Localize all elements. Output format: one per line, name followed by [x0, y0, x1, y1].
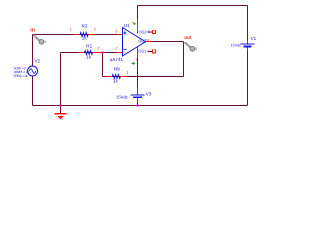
- op-amp minus input glyph: [123, 48, 126, 50]
- op-amp plus input pin stub: [118, 34, 123, 36]
- resistor Rb zigzag: [112, 74, 120, 78]
- wire out row: [145, 41, 184, 43]
- svg-text:1k: 1k: [82, 36, 88, 41]
- V3 battery plates: [131, 94, 145, 96]
- svg-text:R1: R1: [86, 43, 92, 48]
- wire V3 bottom stub: [137, 98, 139, 106]
- voltage probe at in: [34, 35, 47, 45]
- svg-text:in: in: [30, 27, 35, 33]
- ground symbol triangle: [57, 116, 63, 119]
- wire minus input row: [61, 52, 123, 54]
- svg-text:V2: V2: [34, 58, 40, 63]
- resistor R1 zigzag: [84, 50, 92, 54]
- junction node at V3 rail: [136, 104, 138, 106]
- wire in vertical to V2: [32, 35, 34, 67]
- op-amp V+ pin stub: [137, 19, 139, 34]
- svg-text:out: out: [184, 35, 192, 41]
- resistor Rb pin stubs: [106, 76, 112, 78]
- wire V- vertical: [137, 46, 139, 95]
- svg-text:V3: V3: [146, 92, 152, 97]
- V2 sine squiggle: [29, 69, 36, 73]
- svg-text:V1: V1: [251, 36, 257, 41]
- resistor R1 pin stubs: [79, 52, 85, 54]
- svg-text:2: 2: [97, 47, 99, 51]
- op-amp OS1 unconnected pin square: [152, 50, 155, 53]
- op-amp OS1 pin stub: [148, 51, 153, 53]
- svg-text:3: 3: [115, 30, 117, 34]
- voltage probe at out: [185, 42, 198, 52]
- wire ground stub below rail: [60, 106, 62, 114]
- pin-7 current marker arrow: [132, 22, 136, 25]
- svg-text:U1: U1: [124, 23, 130, 28]
- V2 sine source circle: [28, 66, 38, 76]
- wire V1 bottom vertical: [247, 48, 249, 106]
- svg-text:R2: R2: [82, 23, 88, 28]
- junction node at R1/feedback: [101, 51, 103, 53]
- svg-text:1: 1: [70, 28, 72, 32]
- svg-text:1: 1: [147, 49, 149, 53]
- op-amp U1 triangle: [123, 28, 146, 57]
- wire ground vertical: [60, 53, 62, 106]
- wire feedback vertical: [102, 53, 104, 77]
- pin-4 current marker arrow: [131, 62, 135, 65]
- svg-text:OS1: OS1: [138, 48, 147, 53]
- wire bottom rail: [33, 105, 248, 107]
- svg-text:OS2: OS2: [139, 29, 148, 34]
- junction node at ground rail: [59, 104, 61, 106]
- wire V+ vertical: [137, 6, 139, 34]
- wire feedback row: [103, 76, 184, 78]
- ground symbol bar: [55, 113, 67, 115]
- svg-text:5: 5: [148, 30, 150, 34]
- svg-text:1k: 1k: [86, 54, 92, 59]
- V3 battery pin stubs: [137, 89, 139, 95]
- op-amp V- pin stub: [137, 46, 139, 58]
- resistor R2 zigzag: [80, 32, 88, 36]
- svg-text:FREQ = 1k: FREQ = 1k: [14, 74, 28, 78]
- wire in top row: [33, 34, 123, 36]
- op-amp OS2 pin stub: [148, 31, 153, 33]
- svg-text:OUT: OUT: [138, 39, 147, 44]
- svg-text:uA741: uA741: [110, 57, 124, 62]
- svg-text:4: 4: [136, 58, 138, 62]
- V1 battery plates: [241, 43, 255, 45]
- op-amp plus input glyph: [123, 31, 126, 34]
- op-amp OS2 unconnected pin square: [152, 30, 155, 33]
- wire out vertical: [183, 42, 185, 77]
- svg-text:2: 2: [115, 47, 117, 51]
- V1 battery pin stubs: [247, 40, 249, 44]
- op-amp minus input pin stub: [118, 52, 123, 54]
- svg-text:1: 1: [127, 71, 129, 75]
- svg-text:1k: 1k: [113, 79, 119, 84]
- svg-text:2: 2: [94, 28, 96, 32]
- svg-text:15Vdc: 15Vdc: [116, 94, 128, 99]
- wire V1 top vertical: [247, 6, 249, 44]
- svg-text:6: 6: [147, 38, 149, 42]
- resistor R2 pin stubs: [74, 34, 80, 36]
- svg-text:Rb: Rb: [114, 67, 120, 72]
- wire top rail: [138, 5, 248, 7]
- svg-text:15Vdc: 15Vdc: [231, 43, 242, 47]
- wire V2 bottom to rail: [32, 76, 34, 106]
- op-amp output pin stub: [146, 41, 152, 43]
